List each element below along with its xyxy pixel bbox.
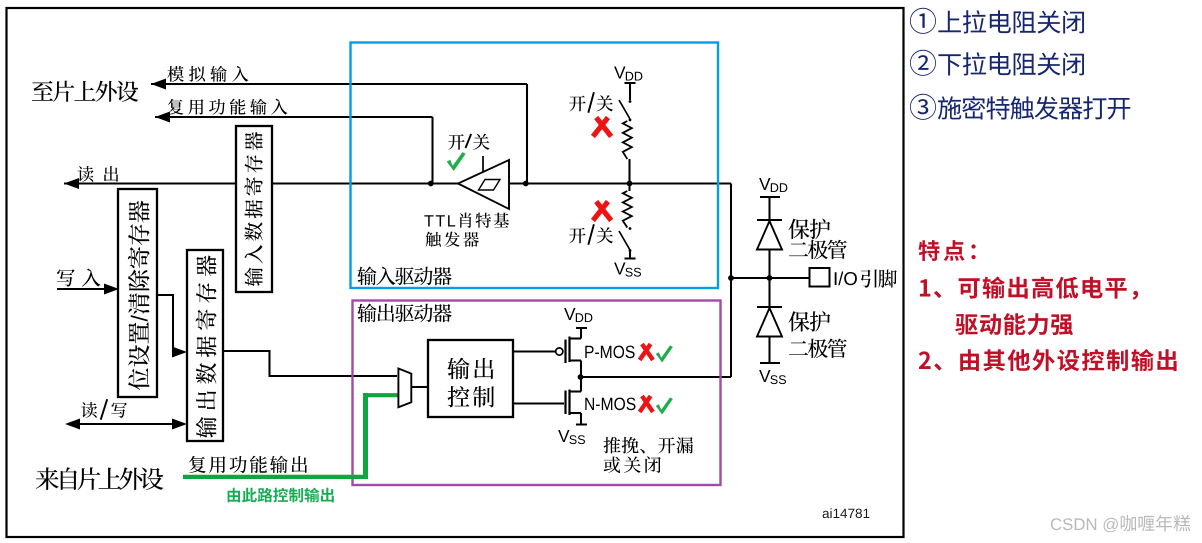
- feature 1 line 1: [920, 277, 1138, 300]
- label VDD pull-up: [614, 67, 642, 81]
- outer frame: [7, 8, 904, 537]
- features title: [919, 240, 976, 261]
- wire diode D2 to VSS: [768, 337, 770, 364]
- watermark CSDN: [1051, 515, 1190, 532]
- label protection diode upper 1: [789, 219, 831, 240]
- wire diode D1 to node: [768, 250, 770, 279]
- wire read-out line y183: [64, 182, 731, 184]
- P-MOS drain stub: [569, 359, 582, 361]
- note 1 circled digit: [910, 8, 936, 34]
- box input data register: [236, 126, 272, 292]
- switch contact dot lower: [629, 119, 632, 122]
- VSS bar N-MOS: [576, 424, 587, 426]
- label VSS pull-down: [614, 263, 641, 277]
- label AF input: [168, 99, 288, 115]
- note 3 schmitt on: [938, 96, 1131, 120]
- label N-MOS: [585, 398, 635, 411]
- arrowhead read-out: [64, 178, 79, 189]
- N-MOS source stub: [569, 412, 582, 414]
- label P-MOS: [585, 346, 634, 359]
- wire output line y377: [581, 376, 732, 378]
- label bit set/reset register: [128, 201, 150, 390]
- label read/write 2: [111, 403, 127, 418]
- label input data register: [244, 132, 262, 286]
- green AF output wire to mux: [363, 393, 398, 397]
- resistor pull-up R: [623, 121, 632, 159]
- wire VDD to P-MOS: [580, 328, 582, 339]
- label to on-chip peripherals: [32, 81, 138, 102]
- TTL schmitt trigger triangle U1: [458, 160, 509, 209]
- arrowhead read/write left: [65, 419, 80, 430]
- label read/write slash: [101, 399, 108, 420]
- label VDD pmos: [564, 308, 592, 322]
- switch contact dot upper: [629, 100, 632, 103]
- label VDD diode: [759, 178, 787, 192]
- resistor pull-down R: [623, 191, 632, 228]
- arrowhead AF input: [155, 112, 170, 123]
- label ai14781: [823, 508, 870, 518]
- label control via this path: [228, 488, 334, 503]
- wire P-MOS drain down: [580, 361, 582, 378]
- P-MOS gate bubble: [556, 348, 563, 355]
- node output junction: [578, 374, 584, 380]
- wire node to diode D2: [768, 278, 770, 307]
- red X pull-down off: [596, 202, 611, 221]
- diode D1 triangle: [757, 221, 782, 250]
- mux trapezoid: [398, 369, 411, 408]
- diode D2 triangle: [757, 308, 782, 337]
- arrowhead into output data register: [172, 347, 187, 358]
- label AF output: [189, 456, 307, 473]
- junction node pull chain: [627, 181, 633, 187]
- VDD rail bar (pull-up): [625, 82, 636, 84]
- wire gate to N-MOS: [513, 402, 564, 404]
- wire to I/O pin y278: [731, 277, 810, 279]
- label TTL schmitt 2: [426, 232, 479, 247]
- N-MOS channel bar: [568, 390, 570, 416]
- label push-pull 1: [604, 437, 693, 454]
- node analog input junction: [523, 181, 529, 187]
- VDD bar P-MOS: [576, 327, 587, 329]
- label VSS nmos: [558, 430, 585, 444]
- P-MOS channel bar: [568, 337, 570, 363]
- green check trigger on: [447, 152, 466, 171]
- switch lever (pull-down, open): [619, 231, 630, 250]
- label input driver: [357, 267, 451, 286]
- label output control 2: [448, 386, 495, 407]
- VDD rail bar (diode): [760, 196, 780, 198]
- wire read/write double line: [78, 423, 174, 425]
- feature 2: [919, 349, 1177, 371]
- label read out: [78, 166, 119, 182]
- green check P-MOS: [656, 345, 673, 362]
- output driver purple box: [353, 301, 721, 486]
- VSS rail bar (diode): [760, 362, 780, 364]
- box I/O pin: [810, 268, 830, 287]
- green AF output wire vertical: [363, 393, 368, 479]
- box output data register: [187, 250, 223, 441]
- label on/off pull-down: [569, 227, 613, 243]
- arrowhead read/write right: [172, 419, 187, 430]
- label VSS diode: [759, 370, 786, 384]
- wire switch to VSS: [629, 251, 631, 259]
- label protection diode lower 2: [789, 339, 847, 359]
- hysteresis symbol: [479, 180, 501, 191]
- red X P-MOS: [642, 344, 653, 360]
- wire node to pull-down resistor: [628, 184, 630, 192]
- wire analog input vertical x527: [526, 84, 528, 184]
- box output control: [428, 340, 513, 417]
- label on/off pull-up: [569, 95, 613, 111]
- label output data register: [196, 255, 217, 438]
- VSS rail bar (pull-down): [625, 258, 636, 260]
- N-MOS gate bar: [564, 391, 566, 415]
- label push-pull 2: [604, 456, 661, 473]
- label analog input: [167, 66, 248, 82]
- label on/off trigger: [448, 134, 489, 150]
- green AF output wire horizontal: [183, 475, 368, 479]
- P-MOS gate bar: [564, 340, 566, 364]
- wire gate to P-MOS: [513, 350, 556, 352]
- feature 1 line 2: [955, 313, 1073, 335]
- label I/O pin cjk: [861, 270, 897, 288]
- arrowhead write: [104, 284, 119, 295]
- P-MOS source stub: [569, 337, 582, 339]
- label protection diode upper 2: [789, 240, 847, 260]
- label write in: [57, 269, 100, 287]
- label TTL schmitt 1: [424, 213, 509, 228]
- node I/O junction: [728, 275, 734, 281]
- wire analog input line y84: [151, 83, 527, 85]
- wire output register to mux: [223, 351, 397, 376]
- red X pull-up off: [596, 118, 611, 137]
- node AF input junction: [428, 181, 434, 187]
- green check N-MOS: [656, 397, 673, 414]
- box bit set/reset register: [118, 189, 157, 397]
- wire write line: [57, 288, 106, 290]
- switch contact dot lower (pull-down): [629, 249, 632, 252]
- wire N-MOS source to VSS: [580, 413, 582, 425]
- label read/write 1: [81, 402, 97, 418]
- node diode junction: [767, 275, 773, 281]
- switch lever (pull-up, open): [619, 100, 630, 119]
- label I/O pin latin: [835, 272, 857, 286]
- label protection diode lower 1: [789, 311, 831, 332]
- label from on-chip peripherals: [36, 467, 164, 490]
- note 3 circled digit: [910, 94, 936, 120]
- wire right vertical x731: [730, 184, 732, 378]
- red X N-MOS: [642, 396, 653, 412]
- switch contact dot upper (pull-down): [629, 227, 632, 230]
- wire VDD to diode D1: [768, 197, 770, 220]
- arrowhead analog input: [151, 79, 166, 90]
- wire bitset to output register: [157, 295, 174, 352]
- label output control 1: [447, 358, 493, 380]
- label output driver: [357, 304, 451, 323]
- diode D1 cathode bar: [757, 219, 782, 221]
- trigger switch stem: [482, 156, 484, 172]
- wire VDD to switch: [629, 83, 631, 100]
- note 2 circled digit: [910, 50, 936, 76]
- input driver blue box: [351, 43, 719, 289]
- N-MOS drain stub: [569, 390, 582, 392]
- wire N-MOS drain up: [580, 377, 582, 392]
- wire alternate function input line y117: [155, 116, 433, 118]
- note 1 pull-up off: [938, 10, 1084, 33]
- diode D2 cathode bar: [757, 306, 782, 308]
- wire resistor to node: [628, 159, 630, 184]
- note 2 pull-down off: [938, 52, 1084, 75]
- wire mux to output control: [412, 386, 428, 388]
- wire AF input vertical x432: [431, 117, 433, 184]
